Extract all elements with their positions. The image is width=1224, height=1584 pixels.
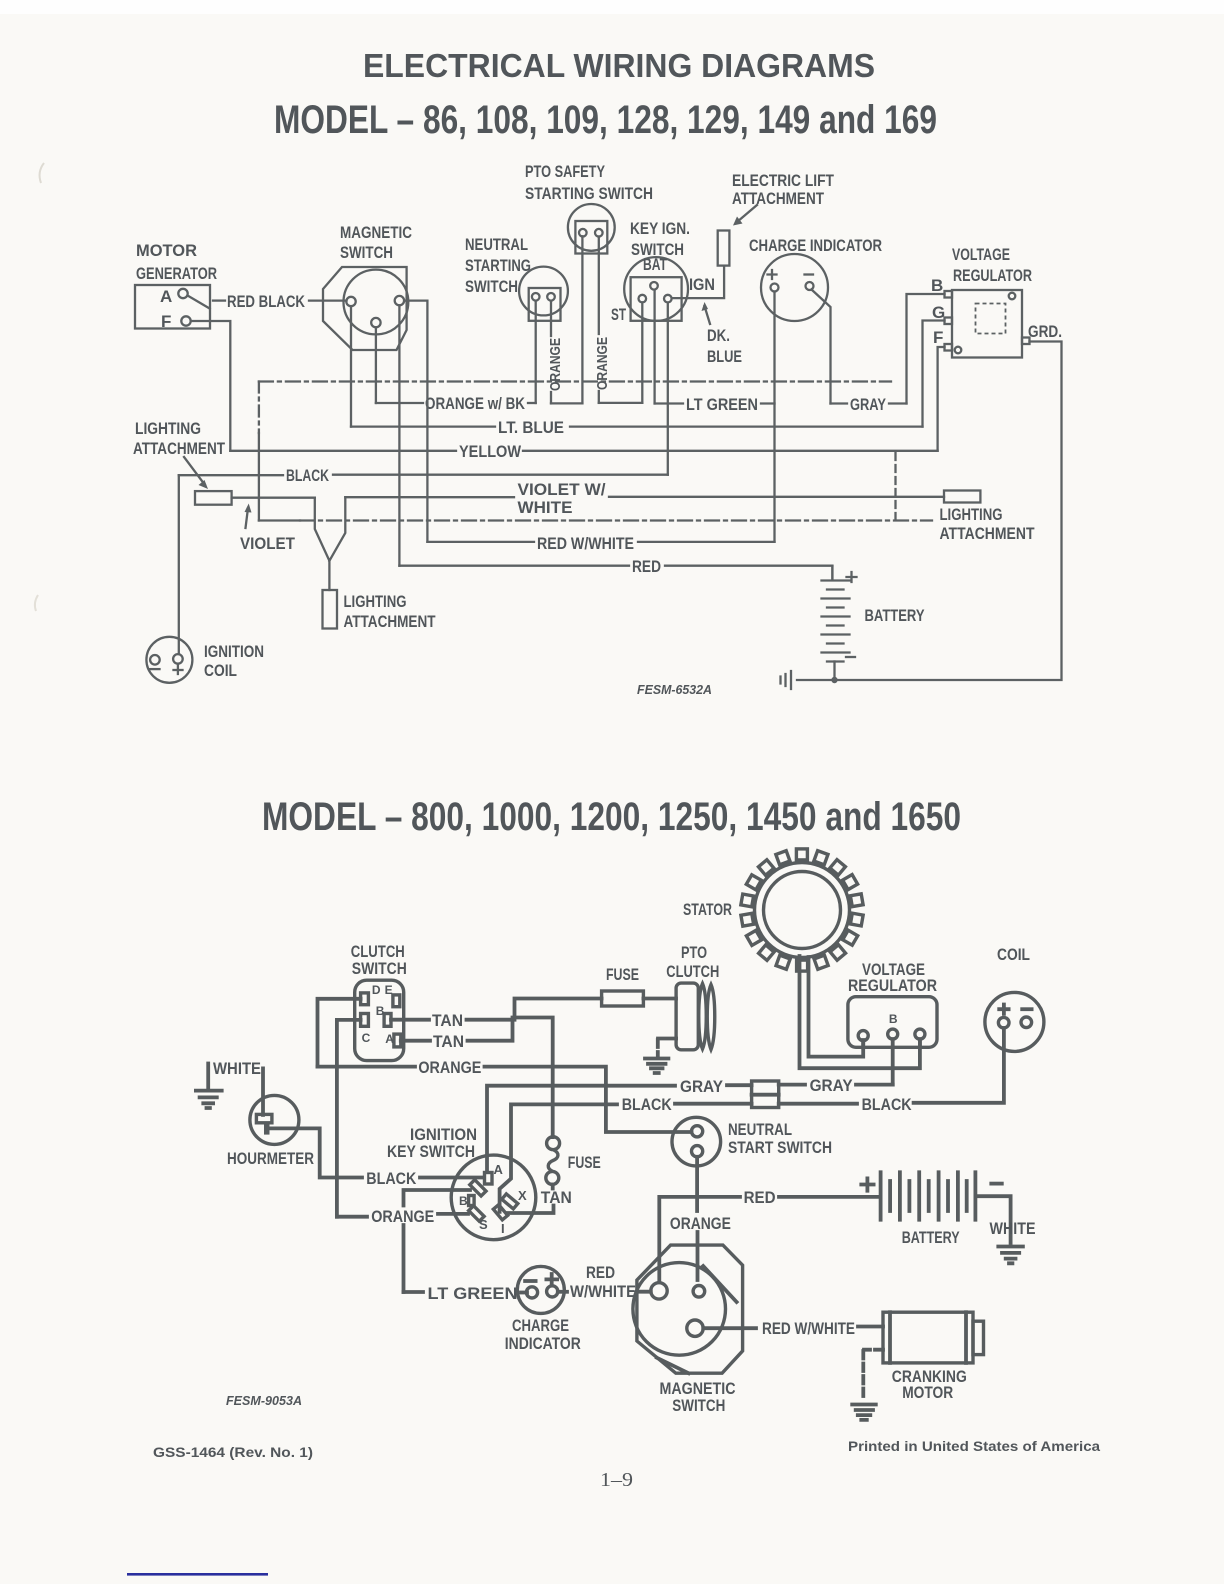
wire PTO clutch to ground <box>658 1037 676 1041</box>
svg-text:X: X <box>518 1188 527 1203</box>
VIOLET arrow <box>246 508 249 528</box>
wire clutch C down left <box>337 1020 361 1217</box>
ground stub at WHITE <box>206 1064 210 1090</box>
DIAGRAM 2 <box>127 795 1100 1576</box>
wire neutral lower to magnetic top (ORANGE) <box>695 1157 699 1211</box>
ST terminal <box>639 295 647 303</box>
svg-text:B: B <box>931 276 943 295</box>
svg-text:ST: ST <box>611 305 626 324</box>
svg-text:ORANGE w/ BK: ORANGE w/ BK <box>425 394 526 413</box>
BLACK label right <box>779 1102 857 1106</box>
wire coil to BLACK row <box>914 1028 1004 1103</box>
neutral switch right terminal <box>547 293 555 301</box>
svg-text:A: A <box>494 1162 504 1177</box>
svg-text:RED: RED <box>586 1263 615 1282</box>
svg-text:ORANGE: ORANGE <box>418 1058 481 1077</box>
svg-text:LT GREEN: LT GREEN <box>686 395 758 414</box>
wire VIOLET W/WHITE row <box>345 496 514 498</box>
IGN terminal <box>664 295 672 303</box>
wire LT GREEN row <box>655 402 683 404</box>
dash-dot harness frame bottom <box>259 519 300 521</box>
wire magnetic right terminal down to RED row <box>398 305 400 565</box>
svg-text:SWITCH: SWITCH <box>672 1396 725 1415</box>
wire clutch D to ORANGE row <box>318 999 361 1067</box>
DK BLUE arrow <box>705 306 711 324</box>
clutch switch pin E <box>393 995 400 1007</box>
fuse 2 wire upper circle <box>547 1137 560 1150</box>
wire fuse 2 to key I pin <box>508 1206 554 1214</box>
neutral start lower terminal <box>692 1146 703 1157</box>
regulator 2 terminal left <box>858 1031 868 1041</box>
electric lift attachment resistor <box>718 231 730 266</box>
clutch switch pin D <box>361 993 369 1005</box>
magnetic 2 top terminal <box>693 1286 705 1298</box>
svg-text:A: A <box>385 1032 394 1046</box>
svg-text:GRD.: GRD. <box>1028 322 1062 341</box>
svg-text:COIL: COIL <box>997 945 1030 964</box>
magnetic switch 2 body <box>637 1245 743 1373</box>
wire LT GREEN to key switch B pin <box>404 1190 471 1206</box>
svg-text:REGULATOR: REGULATOR <box>953 266 1032 285</box>
svg-text:I: I <box>501 1221 505 1236</box>
ignition coil left terminal <box>150 655 160 665</box>
magnetic 2 center terminal <box>687 1320 703 1336</box>
svg-text:STATOR: STATOR <box>683 900 732 919</box>
ground symbol at WHITE <box>196 1091 222 1108</box>
switch blade A <box>188 296 210 309</box>
ORANGE row to S pin <box>337 1215 367 1219</box>
svg-text:B: B <box>889 1012 898 1026</box>
svg-text:RED W/WHITE: RED W/WHITE <box>762 1319 855 1338</box>
terminal A <box>178 289 187 298</box>
svg-text:HOURMETER: HOURMETER <box>227 1149 314 1168</box>
svg-text:IGNITION: IGNITION <box>204 642 264 661</box>
svg-text:PTO: PTO <box>681 943 707 962</box>
dash-dot harness frame left <box>258 382 260 434</box>
PTO clutch body <box>676 983 698 1050</box>
svg-text:TAN: TAN <box>432 1011 463 1030</box>
charge indicator minus sign <box>805 273 814 275</box>
battery 2 plates <box>881 1172 976 1219</box>
svg-text:FESM-9053A: FESM-9053A <box>226 1393 302 1408</box>
lighting attachment left resistor <box>195 491 232 505</box>
wire TAN 1 from pin B <box>391 1018 429 1022</box>
key switch pin B <box>469 1196 475 1206</box>
wire YELLOW row <box>230 450 456 452</box>
wire charge 2 plus to RED W WHITE label <box>558 1290 567 1294</box>
svg-text:STARTING: STARTING <box>465 256 531 275</box>
wire F to yellow row <box>191 321 231 451</box>
wire IGN to electric lift <box>672 266 724 299</box>
svg-text:1–9: 1–9 <box>600 1469 633 1491</box>
svg-text:KEY IGN.: KEY IGN. <box>630 219 690 238</box>
PTO switch left terminal <box>579 229 587 237</box>
svg-text:NEUTRAL: NEUTRAL <box>728 1120 792 1139</box>
wire charge plus down <box>773 292 775 542</box>
battery plus sign <box>847 572 857 582</box>
DIAGRAM 1 <box>133 162 1062 697</box>
svg-text:DK.: DK. <box>707 326 730 345</box>
wire neutral switch left terminal down <box>535 301 537 403</box>
hourmeter body <box>250 1095 299 1144</box>
charge 2 plus terminal <box>546 1274 557 1285</box>
clutch switch pin C <box>361 1014 369 1027</box>
battery 2 minus sign <box>991 1182 1002 1186</box>
lighting attachment right resistor <box>944 491 980 503</box>
BAT terminal <box>650 282 658 290</box>
key switch pin X <box>502 1194 518 1209</box>
wire magnetic 2 center to cranking motor <box>703 1326 756 1330</box>
svg-text:LIGHTING: LIGHTING <box>344 592 407 611</box>
svg-text:ATTACHMENT: ATTACHMENT <box>344 612 436 631</box>
key switch pin S <box>469 1206 485 1222</box>
svg-text:BATTERY: BATTERY <box>902 1228 960 1247</box>
svg-text:VIOLET: VIOLET <box>240 534 296 553</box>
stator body <box>755 863 850 958</box>
wire RED row <box>659 1197 740 1282</box>
svg-text:E: E <box>385 983 393 997</box>
fuse <box>602 991 644 1006</box>
ground under PTO clutch <box>645 1059 668 1074</box>
dash-dot harness frame right <box>894 453 896 519</box>
magnetic switch left terminal <box>346 297 355 306</box>
electric lift arrow <box>737 205 757 222</box>
svg-text:BLUE: BLUE <box>707 347 742 366</box>
voltage regulator 2 box <box>848 997 937 1048</box>
ground at cranking motor <box>852 1405 876 1420</box>
wire key A up to GRAY row <box>487 1086 675 1172</box>
svg-text:WHITE: WHITE <box>518 498 573 517</box>
svg-text:MODEL – 86, 108, 109, 128, 129: MODEL – 86, 108, 109, 128, 129, 149 and … <box>274 98 937 142</box>
svg-text:ATTACHMENT: ATTACHMENT <box>940 524 1036 543</box>
coil plus terminal <box>999 1005 1008 1014</box>
ignition coil body <box>146 637 192 683</box>
regulator 2 terminal right <box>915 1029 925 1039</box>
svg-text:CHARGE INDICATOR: CHARGE INDICATOR <box>749 236 882 255</box>
wire hourmeter to BLACK row <box>270 1128 363 1177</box>
LT GREEN row <box>404 1290 424 1294</box>
stator wire right <box>809 957 864 1057</box>
svg-text:RED: RED <box>744 1188 776 1207</box>
svg-text:LIGHTING: LIGHTING <box>940 505 1003 524</box>
wire white to hourmeter <box>261 1068 265 1115</box>
svg-text:F: F <box>161 312 171 331</box>
lighting attachment mid resistor <box>323 590 338 629</box>
wire regulator B <box>907 294 945 404</box>
svg-text:START SWITCH: START SWITCH <box>728 1138 832 1157</box>
svg-text:WHITE: WHITE <box>990 1219 1036 1238</box>
key switch pin upper-left <box>470 1180 486 1196</box>
svg-text:CHARGE: CHARGE <box>512 1316 569 1335</box>
neutral switch left terminal <box>532 293 540 301</box>
svg-text:RED BLACK: RED BLACK <box>227 292 306 311</box>
wire VIOLET from resistor to Y junction <box>232 497 315 499</box>
svg-text:GSS-1464 (Rev. No. 1): GSS-1464 (Rev. No. 1) <box>153 1444 313 1460</box>
svg-text:G: G <box>932 303 945 322</box>
wire IGN down to BLACK row <box>667 303 669 475</box>
neutral start switch body <box>672 1117 721 1166</box>
svg-text:WHITE: WHITE <box>213 1059 261 1078</box>
wire GRD to battery ground <box>797 342 1062 681</box>
wire label RED BLACK <box>213 299 225 301</box>
wire magnetic bottom terminal down <box>375 327 377 403</box>
svg-text:VIOLET W/: VIOLET W/ <box>518 480 606 499</box>
magnetic switch 2 inner diagonal <box>703 1266 736 1302</box>
wire LT BLUE row <box>351 425 495 427</box>
svg-text:D: D <box>372 983 381 997</box>
fuse 2 lower circle <box>546 1171 559 1184</box>
fuse 2 squiggle <box>548 1150 558 1171</box>
neutral starting switch body <box>519 267 568 316</box>
svg-text:ATTACHMENT: ATTACHMENT <box>732 189 824 208</box>
svg-text:RED: RED <box>632 557 661 576</box>
wire charge minus to GRAY row <box>812 290 831 404</box>
svg-text:STARTING SWITCH: STARTING SWITCH <box>525 184 653 203</box>
wire magnetic left terminal down to LT BLUE row <box>350 306 352 426</box>
svg-text:B: B <box>459 1194 468 1208</box>
wire fuse to PTO clutch <box>643 997 676 1001</box>
charge indicator plus terminal <box>771 284 779 292</box>
svg-text:LT GREEN: LT GREEN <box>428 1284 518 1303</box>
svg-text:BATTERY: BATTERY <box>865 606 926 625</box>
ground at battery 2 <box>998 1247 1023 1264</box>
magnetic switch body <box>323 267 407 350</box>
svg-text:FUSE: FUSE <box>606 965 639 984</box>
svg-text:TAN: TAN <box>433 1032 464 1051</box>
svg-text:F: F <box>933 328 943 347</box>
wire magnetic right terminal to charge indicator branch <box>404 301 427 542</box>
svg-text:W/WHITE: W/WHITE <box>570 1282 636 1301</box>
clutch switch pin A <box>394 1034 401 1047</box>
svg-text:BAT: BAT <box>643 255 667 274</box>
svg-text:S: S <box>479 1217 488 1232</box>
wire RED W WHITE label to magnetic left terminal <box>638 1290 651 1294</box>
svg-text:SWITCH: SWITCH <box>340 243 393 262</box>
motor generator box <box>135 285 210 329</box>
lighting attachment left arrow <box>184 457 205 485</box>
coil minus terminal <box>1022 1007 1031 1011</box>
svg-text:GENERATOR: GENERATOR <box>136 264 217 283</box>
cranking motor body <box>883 1312 973 1363</box>
svg-text:LT. BLUE: LT. BLUE <box>498 418 564 437</box>
svg-text:GRAY: GRAY <box>810 1076 854 1095</box>
charge indicator 2 body <box>517 1266 564 1313</box>
svg-text:BLACK: BLACK <box>862 1095 913 1114</box>
key switch body <box>624 257 688 321</box>
ignition coil right terminal <box>173 654 183 664</box>
wire regulator B to GRAY <box>891 1047 895 1084</box>
svg-text:MOTOR: MOTOR <box>136 241 197 260</box>
svg-text:MODEL – 800, 1000, 1200, 1250,: MODEL – 800, 1000, 1200, 1250, 1450 and … <box>262 795 961 839</box>
battery minus stub <box>833 662 835 681</box>
wire RED BLACK to magnetic switch <box>309 299 347 301</box>
wire BAT down to LT GREEN <box>653 290 655 404</box>
svg-text:MAGNETIC: MAGNETIC <box>340 223 412 242</box>
svg-text:B: B <box>376 1004 385 1018</box>
wire RED row <box>399 565 629 567</box>
wire key X jog to BLACK row <box>500 1104 617 1212</box>
svg-text:RED W/WHITE: RED W/WHITE <box>537 534 634 553</box>
svg-text:ORANGE: ORANGE <box>670 1214 731 1233</box>
svg-text:REGULATOR: REGULATOR <box>848 976 937 995</box>
svg-text:Printed in United States of Am: Printed in United States of America <box>848 1438 1100 1454</box>
wire Y merge to lighting attachment mid <box>315 498 330 590</box>
svg-text:FESM-6532A: FESM-6532A <box>637 682 712 697</box>
magnetic 2 left terminal <box>651 1283 667 1299</box>
wire regulator G to LT BLUE row <box>923 321 945 427</box>
svg-text:SWITCH: SWITCH <box>465 277 518 296</box>
clutch switch pin B <box>384 1014 391 1027</box>
magnetic switch right terminal <box>395 296 404 305</box>
dash-dot harness frame top <box>259 380 891 382</box>
junction battery ground <box>831 677 837 683</box>
svg-text:A: A <box>160 287 172 306</box>
wire GRAY row <box>831 402 848 404</box>
wire ORANGE PTO right to key switch ST <box>598 237 600 335</box>
wire ORANGE row <box>318 1065 416 1069</box>
battery minus sign <box>846 656 855 658</box>
wire BLACK row <box>333 474 668 476</box>
magnetic switch bottom terminal <box>371 318 380 327</box>
neutral start upper terminal <box>692 1126 703 1137</box>
voltage regulator box <box>952 290 1022 358</box>
svg-text:NEUTRAL: NEUTRAL <box>465 235 528 254</box>
PTO switch right terminal <box>595 229 603 237</box>
svg-text:GRAY: GRAY <box>850 395 886 414</box>
wire cranking motor to ground dashed <box>864 1348 883 1352</box>
svg-text:BLACK: BLACK <box>622 1095 673 1114</box>
svg-text:VOLTAGE: VOLTAGE <box>952 245 1010 264</box>
connector <box>752 1081 779 1108</box>
svg-text:C: C <box>362 1031 371 1045</box>
svg-text:TAN: TAN <box>541 1188 572 1207</box>
wire VIOLET W/WHITE branch of Y <box>329 497 345 561</box>
key switch pin I <box>493 1205 507 1220</box>
charge indicator plus sign <box>768 270 777 279</box>
svg-text:YELLOW: YELLOW <box>459 442 522 461</box>
wire RED W/WHITE row <box>427 541 534 543</box>
wire TAN 2 from pin A <box>401 1039 430 1043</box>
svg-text:MOTOR: MOTOR <box>902 1383 953 1402</box>
coil body <box>985 992 1044 1051</box>
ground symbol at battery <box>781 671 792 689</box>
svg-text:INDICATOR: INDICATOR <box>505 1334 581 1353</box>
svg-text:ELECTRIC LIFT: ELECTRIC LIFT <box>732 171 834 190</box>
hourmeter element <box>256 1114 272 1122</box>
wire ORANGE w/BK row <box>376 402 423 404</box>
svg-text:ELECTRICAL WIRING DIAGRAMS: ELECTRICAL WIRING DIAGRAMS <box>363 47 875 84</box>
battery 2 plus sign <box>861 1178 873 1190</box>
ignition key switch body <box>451 1155 536 1240</box>
stator wire left <box>800 956 920 1068</box>
battery plus stub <box>831 566 833 580</box>
svg-text:ATTACHMENT: ATTACHMENT <box>133 439 225 458</box>
svg-text:BLACK: BLACK <box>286 466 330 485</box>
key switch pin A <box>485 1173 493 1185</box>
svg-text:BLACK: BLACK <box>366 1169 417 1188</box>
GRAY label right <box>779 1083 805 1087</box>
wire ORANGE neutral right to PTO left <box>550 301 552 336</box>
blue underline mark <box>127 1573 268 1576</box>
wire regulator F to YELLOW row <box>938 347 945 451</box>
PTO safety starting switch body <box>568 204 615 251</box>
svg-text:KEY SWITCH: KEY SWITCH <box>387 1142 475 1161</box>
svg-text:COIL: COIL <box>204 661 237 680</box>
wire BLACK down to ignition coil <box>178 475 180 654</box>
svg-text:IGN: IGN <box>689 275 715 294</box>
charge indicator minus terminal <box>806 282 814 290</box>
svg-text:SWITCH: SWITCH <box>352 959 407 978</box>
battery plates <box>822 581 850 662</box>
clutch switch body <box>355 980 404 1060</box>
svg-text:GRAY: GRAY <box>680 1077 724 1096</box>
svg-text:LIGHTING: LIGHTING <box>135 419 201 438</box>
terminal F <box>181 316 190 325</box>
wire battery minus to ground <box>975 1196 1010 1243</box>
svg-text:CLUTCH: CLUTCH <box>666 962 719 981</box>
svg-text:PTO SAFETY: PTO SAFETY <box>525 162 605 181</box>
charge indicator body <box>761 254 828 321</box>
svg-text:ORANGE: ORANGE <box>547 338 564 391</box>
charge 2 minus terminal <box>525 1279 536 1283</box>
svg-text:FUSE: FUSE <box>568 1153 601 1172</box>
